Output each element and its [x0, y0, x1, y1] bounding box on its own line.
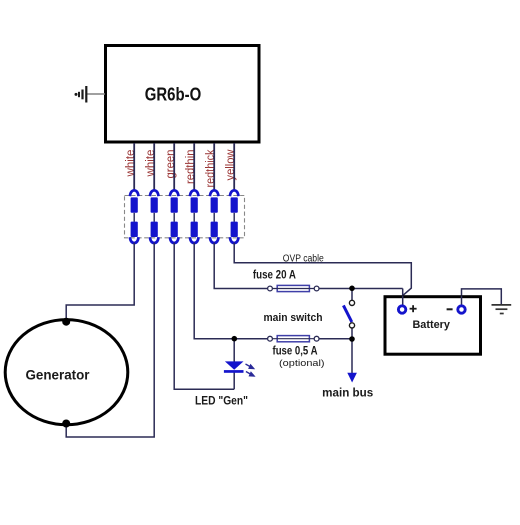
- svg-text:main bus: main bus: [322, 387, 373, 399]
- svg-text:redthin: redthin: [185, 150, 197, 185]
- svg-text:fuse 20 A: fuse 20 A: [253, 268, 296, 282]
- svg-text:Generator: Generator: [26, 367, 91, 383]
- svg-text:OVP cable: OVP cable: [283, 253, 324, 264]
- svg-text:LED "Gen": LED "Gen": [195, 394, 248, 408]
- svg-text:white: white: [145, 150, 157, 178]
- svg-text:Battery: Battery: [412, 319, 450, 331]
- svg-text:fuse 0,5 A: fuse 0,5 A: [273, 344, 318, 358]
- svg-text:main switch: main switch: [264, 312, 323, 324]
- svg-text:white: white: [125, 150, 137, 178]
- svg-text:redthick: redthick: [205, 149, 217, 187]
- svg-text:(optional): (optional): [279, 358, 325, 369]
- svg-text:yellow: yellow: [225, 149, 237, 181]
- svg-text:green: green: [165, 150, 177, 179]
- svg-text:GR6b-O: GR6b-O: [145, 85, 202, 105]
